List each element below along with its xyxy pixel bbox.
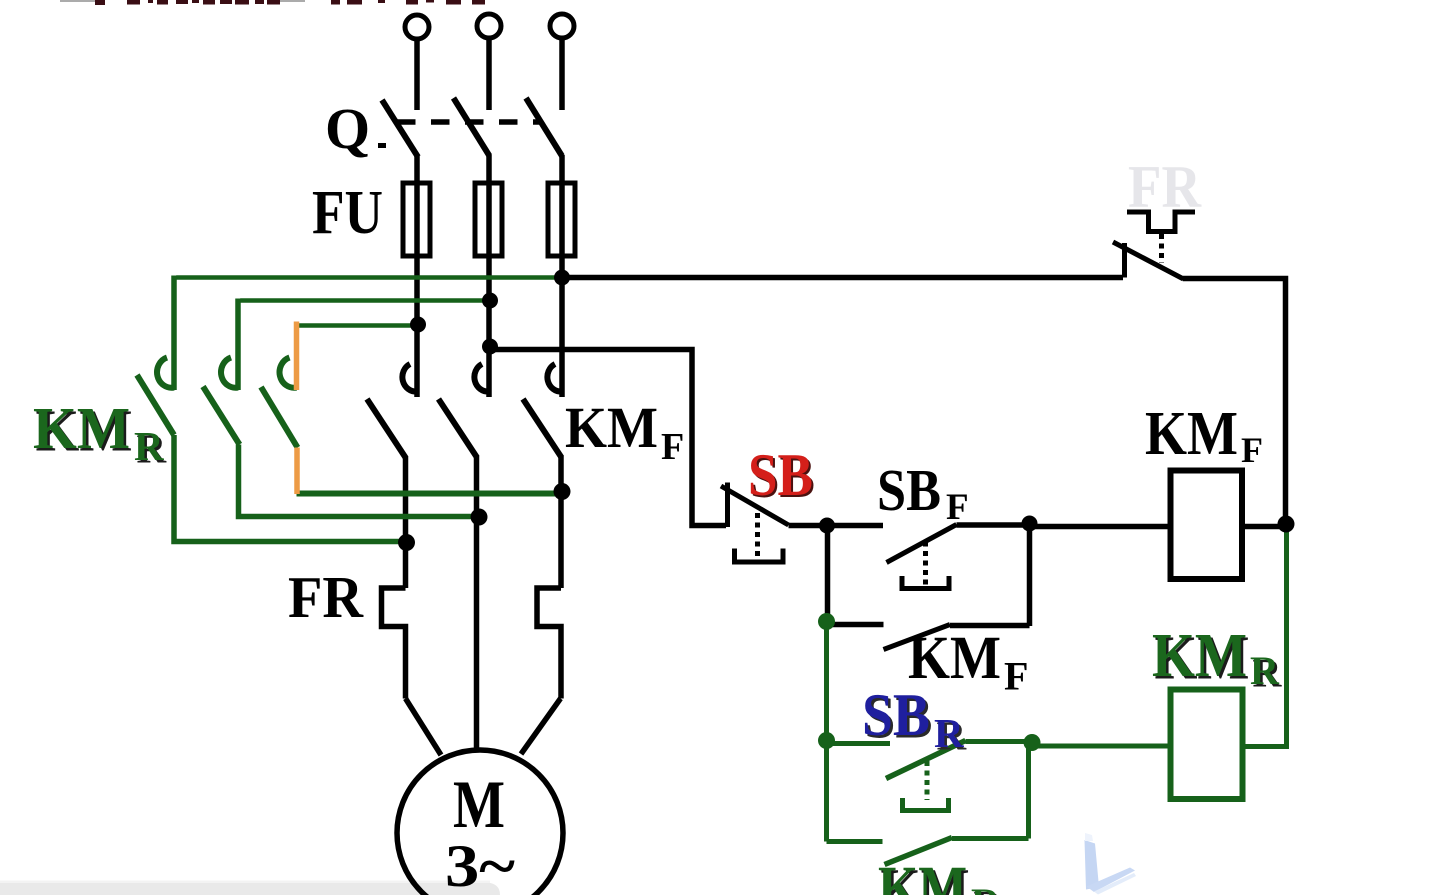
label SB (red) bbox=[748, 442, 815, 510]
label KM_F holding bbox=[908, 625, 1028, 699]
switch Q pole 1 blade bbox=[382, 100, 418, 157]
reverse button SB_R cap bbox=[903, 798, 949, 811]
wire KM_R pole2 bottom to phase2 bbox=[239, 445, 479, 517]
junction node C2 green bbox=[818, 732, 835, 749]
wire SB_R to node D bbox=[966, 739, 1033, 744]
reverse button SB_R blade bbox=[886, 741, 966, 779]
svg-text:KM: KM bbox=[878, 855, 967, 895]
holding contact KM_F blade bbox=[884, 625, 951, 650]
control circuit green wiring bbox=[827, 524, 1287, 865]
label KM_R main (green) bbox=[33, 395, 167, 472]
switch Q pole 3 blade bbox=[526, 98, 562, 156]
wire green L2 to KM_R pole2 top bbox=[240, 298, 489, 302]
terminal L1 bbox=[405, 15, 429, 39]
wire SB to node A bbox=[789, 523, 884, 529]
svg-text:R: R bbox=[971, 880, 1001, 895]
wire L1 drop bbox=[414, 39, 420, 110]
wire coil KM_F to right rail bbox=[1242, 524, 1286, 530]
svg-text:F: F bbox=[1004, 654, 1028, 699]
wire control bus top bbox=[562, 275, 1123, 281]
svg-text:R: R bbox=[1250, 648, 1280, 693]
wire green L1 to KM_R pole3 top bbox=[294, 323, 418, 327]
reverse button SB_R actuator dashed bbox=[925, 761, 930, 800]
coil KM_F bbox=[1171, 471, 1243, 580]
start button SB_F cap bbox=[902, 576, 949, 589]
svg-text:3~: 3~ bbox=[445, 833, 515, 895]
contactor KM_R pole 2 blade bbox=[203, 387, 240, 445]
wire KM_R pole3 bottom to phase3 bbox=[297, 491, 563, 497]
label SB_R (blue) bbox=[862, 682, 967, 759]
stop button SB blade bbox=[721, 486, 789, 525]
wire FR to right rail bbox=[1183, 279, 1286, 525]
junction node A bbox=[819, 518, 835, 534]
fuse FU 1 bbox=[403, 183, 430, 256]
contactor KM_R pole 3 blade bbox=[261, 387, 298, 448]
contactor KM_R pole 1 fixed hook bbox=[157, 358, 174, 388]
FR NC contact blade bbox=[1113, 242, 1184, 279]
contactor KM_F pole 3 blade bbox=[523, 399, 562, 458]
wire phase3 lower vertical bbox=[558, 456, 564, 588]
holding contact KM_F right wire bbox=[950, 623, 1030, 629]
fuse FU 2 bbox=[475, 183, 502, 256]
orange marked wire upper segment bbox=[294, 322, 300, 391]
junction node C green bbox=[818, 613, 835, 630]
wire node B to coil KM_F bbox=[1030, 524, 1171, 530]
wire node A down bbox=[825, 526, 831, 622]
control circuit black wiring bbox=[490, 212, 1286, 650]
junction node phase3 lower bbox=[554, 483, 571, 500]
bottom slide bar bbox=[0, 883, 500, 895]
svg-text:SB: SB bbox=[877, 457, 941, 523]
holding contact KM_F left wire bbox=[827, 622, 884, 628]
stop button SB actuator dashed bbox=[755, 513, 760, 559]
thermal relay FR heater 1 bbox=[382, 588, 406, 699]
svg-text:Q: Q bbox=[325, 96, 370, 161]
wire phase2 lower vertical bbox=[474, 456, 480, 749]
stop button SB cap bbox=[735, 549, 784, 563]
svg-text:R: R bbox=[134, 423, 164, 469]
holding contact KM_R blade bbox=[885, 838, 953, 865]
contactor KM_F pole 1 blade bbox=[367, 399, 406, 458]
reverse button SB_R left wire bbox=[827, 741, 891, 746]
svg-text:FR: FR bbox=[1128, 154, 1202, 220]
thermal relay FR trip symbol bbox=[1127, 212, 1195, 232]
svg-text:M: M bbox=[453, 766, 505, 842]
wire L3 drop bbox=[559, 38, 565, 110]
contactor KM_F pole 1 fixed hook bbox=[402, 364, 417, 392]
wire phase1 vertical bbox=[414, 156, 420, 397]
contactor KM_R pole 1 blade bbox=[137, 375, 174, 435]
label KM_F coil bbox=[1145, 400, 1263, 470]
label KM_R coil (green) bbox=[1152, 622, 1283, 696]
svg-text:F: F bbox=[661, 426, 684, 468]
wire phase3 vertical bbox=[559, 155, 565, 397]
FR contact actuator dashed bbox=[1159, 234, 1164, 263]
junction node phase2 lower bbox=[471, 509, 488, 526]
wire L2 drop bbox=[486, 38, 492, 110]
label KM_R holding (green, cropped) bbox=[878, 855, 1004, 895]
contactor KM_R pole 3 fixed hook bbox=[280, 358, 297, 388]
junction node phase1 lower bbox=[398, 534, 415, 551]
wire motor lead 1 diagonal bbox=[406, 699, 442, 756]
fuse FU 1 wire bbox=[414, 183, 420, 256]
junction node L2-green bbox=[482, 293, 498, 309]
contactor KM_R pole 2 fixed hook bbox=[221, 358, 238, 388]
wire motor lead 3 diagonal bbox=[521, 699, 561, 755]
wire KM_R pole1 bottom to phase1 bbox=[174, 435, 406, 542]
start button SB_F blade bbox=[887, 525, 957, 563]
svg-text:FR: FR bbox=[288, 564, 364, 630]
junction node L3-green bbox=[554, 270, 570, 286]
coil KM_R bbox=[1171, 690, 1243, 800]
FR contact stop tick bbox=[1122, 243, 1127, 278]
holding contact KM_R left wire bbox=[827, 839, 883, 844]
svg-text:F: F bbox=[946, 487, 969, 528]
wire control tap horizontal bbox=[490, 350, 726, 526]
svg-text:F: F bbox=[1241, 430, 1263, 470]
wire green L3 to KM_R pole1 top bbox=[176, 275, 562, 279]
contactor KM_F pole 3 fixed hook bbox=[547, 364, 562, 392]
start button SB_F actuator dashed bbox=[923, 542, 928, 587]
label SB_F bbox=[877, 457, 969, 528]
svg-text:R: R bbox=[934, 710, 964, 756]
switch Q pole 2 blade bbox=[454, 98, 490, 156]
motor M 3~ bbox=[397, 750, 563, 895]
svg-text:SB: SB bbox=[862, 682, 930, 748]
switch Q pole 1 contact tick bbox=[378, 143, 386, 148]
reversing contactor KM_R green crossover wiring bbox=[137, 276, 562, 542]
orange marked wire lower segment bbox=[294, 448, 300, 495]
svg-text:KM: KM bbox=[1152, 622, 1247, 690]
svg-text:FU: FU bbox=[312, 179, 383, 247]
wire phase2 vertical bbox=[486, 155, 492, 397]
junction node B bbox=[1022, 516, 1038, 532]
contactor KM_F pole 2 blade bbox=[439, 399, 478, 458]
wire node B down bbox=[1027, 524, 1033, 627]
wire green right rail down bbox=[1244, 524, 1287, 747]
svg-text:KM: KM bbox=[1145, 400, 1238, 468]
fuse FU 3 bbox=[548, 183, 575, 256]
terminal L3 bbox=[550, 14, 574, 38]
wire SB_R branch down bbox=[824, 741, 829, 842]
contactor KM_F pole 2 fixed hook bbox=[474, 364, 489, 392]
junction node coil KM_F right bbox=[1278, 516, 1295, 533]
watermark logo bbox=[1085, 833, 1137, 895]
thermal relay FR heater 3 bbox=[537, 588, 561, 699]
terminal L2 bbox=[477, 14, 501, 38]
svg-text:KM: KM bbox=[565, 395, 658, 460]
junction node D green bbox=[1024, 734, 1041, 751]
junction node control tap bbox=[482, 339, 498, 355]
label KM_F main bbox=[565, 395, 684, 468]
svg-text:KM: KM bbox=[33, 395, 130, 461]
wire coil KM_R to node D bbox=[1032, 744, 1171, 749]
wire SB_F to node B bbox=[957, 522, 1030, 528]
stop button SB stop tick bbox=[725, 483, 730, 528]
wire KM_R holding up bbox=[1026, 743, 1031, 839]
wire node C down bbox=[824, 622, 829, 741]
junction node L1-green bbox=[410, 317, 426, 333]
wire phase1 lower vertical bbox=[403, 456, 409, 588]
fuse FU 2 wire bbox=[486, 183, 492, 256]
holding contact KM_R right wire bbox=[952, 836, 1029, 841]
title remnant (cropped dark-red heading glyph bottoms) bbox=[60, 0, 485, 5]
switch Q linkage dashed bbox=[397, 119, 540, 125]
fuse FU 3 wire bbox=[559, 183, 565, 256]
svg-text:SB: SB bbox=[748, 442, 813, 508]
